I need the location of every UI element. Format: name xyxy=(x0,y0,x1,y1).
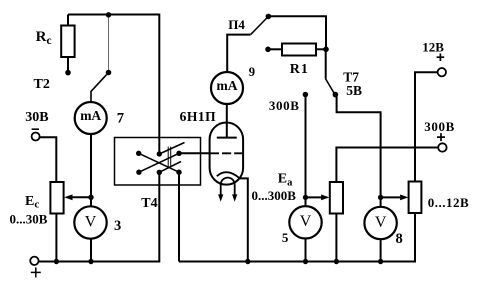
wire T4 crossover BL-TR xyxy=(139,153,179,172)
label plus bottom-left xyxy=(31,267,41,277)
svg-text:5: 5 xyxy=(282,230,289,245)
wire V3 to bus xyxy=(90,239,92,262)
svg-text:V: V xyxy=(375,214,387,231)
node cathode bus junction xyxy=(245,259,250,264)
switch T4 blade upper xyxy=(159,143,184,155)
voltmeter V 5 xyxy=(289,206,321,238)
label plus 300V xyxy=(437,133,445,141)
svg-text:5В: 5В xyxy=(346,83,362,98)
svg-text:7: 7 xyxy=(117,111,124,127)
wire 12V terminal to pot xyxy=(415,72,438,181)
svg-text:0...12В: 0...12В xyxy=(428,195,469,210)
node terminal 300V mid xyxy=(303,92,309,98)
svg-text:0...300В: 0...300В xyxy=(252,188,297,203)
potentiometer Ec xyxy=(50,182,63,214)
wire Ec wiper arrow xyxy=(64,194,91,200)
switch box T4 xyxy=(115,138,201,186)
node V5 bus junction xyxy=(303,259,308,264)
resistor R1 xyxy=(265,44,326,56)
switch P4 blade xyxy=(251,18,267,35)
node Rc bottom terminal xyxy=(65,70,71,76)
node T4 BM xyxy=(157,170,162,175)
svg-text:30В: 30В xyxy=(25,110,48,125)
node T2 contact xyxy=(106,70,112,76)
wire 300V terminal to pot Ea xyxy=(336,148,438,183)
switch T7 blade xyxy=(325,79,334,94)
svg-text:mA: mA xyxy=(217,78,238,93)
svg-text:300В: 300В xyxy=(424,119,455,134)
switch T2 blade xyxy=(91,75,107,102)
node Ec wiper junction xyxy=(88,195,93,200)
switch T4 blade lower xyxy=(159,162,181,173)
wire P4 to mA9 xyxy=(227,35,250,72)
wire 300V mid to V5 junction xyxy=(305,96,307,206)
svg-text:9: 9 xyxy=(249,65,255,79)
wire V8 to bus xyxy=(380,239,382,261)
wire V5 to bus xyxy=(305,239,307,262)
terminal plus bottom-left xyxy=(30,257,38,265)
wire R1 junction to T7 xyxy=(325,49,327,78)
svg-text:R1: R1 xyxy=(290,62,309,77)
wire bottom bus right segment xyxy=(179,213,415,262)
node T4 TR xyxy=(176,151,181,156)
wire V8 wiper arrow xyxy=(381,195,409,201)
svg-text:V: V xyxy=(300,213,312,230)
svg-text:П4: П4 xyxy=(228,17,245,32)
wire Ec pot to bus xyxy=(55,214,57,262)
node junction top wire / T2 xyxy=(106,12,111,17)
wire cathode to bus xyxy=(240,178,248,261)
node R1 right junction xyxy=(323,47,329,53)
node Ec bus junction xyxy=(54,259,59,264)
potentiometer 0-12V xyxy=(409,182,422,214)
node V3 bus junction xyxy=(88,259,93,264)
wire bottom bus left segment up to T4 contact xyxy=(39,172,160,261)
svg-text:V: V xyxy=(85,213,97,230)
milliammeter mA 9 xyxy=(211,72,243,104)
tube cathode xyxy=(217,172,240,178)
T4 coupling bars xyxy=(168,147,171,167)
node T4 TL xyxy=(136,151,141,156)
node P4 contact xyxy=(266,14,272,20)
node T7 contact xyxy=(333,92,339,98)
wire T2 fixed contact (thin vertical) xyxy=(108,16,110,71)
terminal 12V plus xyxy=(438,68,446,76)
wire top right from P4 to R1 drop xyxy=(268,16,326,49)
wire T4 to tube grid xyxy=(179,152,211,154)
wire mA7 to wiper node xyxy=(90,134,92,207)
node V5 junction xyxy=(303,195,308,200)
tube anode xyxy=(217,104,237,138)
node T4 TM xyxy=(157,151,162,156)
tube heater xyxy=(218,178,237,202)
milliammeter mA 7 xyxy=(75,102,107,134)
wire T4 crossover TL-BR xyxy=(139,153,179,172)
node T4 BR xyxy=(176,170,181,175)
terminal 30V minus xyxy=(32,129,40,140)
voltmeter V 8 xyxy=(364,207,396,239)
node V8 bus junction xyxy=(378,259,383,264)
svg-text:T2: T2 xyxy=(34,77,50,92)
terminal 300V plus right xyxy=(438,143,446,151)
wire Ea pot to bus xyxy=(335,214,337,262)
svg-text:12В: 12В xyxy=(422,39,444,54)
svg-text:300В: 300В xyxy=(269,98,300,113)
wire T7 to V8 junction xyxy=(337,97,381,208)
svg-text:6Н1П: 6Н1П xyxy=(180,109,217,124)
wire 30V terminal to pot Ec xyxy=(40,137,57,182)
node V8 junction xyxy=(378,195,383,200)
svg-text:mA: mA xyxy=(80,108,101,123)
node Ea pot bus junction xyxy=(334,259,339,264)
svg-text:3: 3 xyxy=(114,218,121,234)
svg-text:0...30В: 0...30В xyxy=(10,212,48,227)
resistor Rc xyxy=(61,15,74,72)
tube grid (dashed) xyxy=(210,152,244,154)
tube 6N1P envelope xyxy=(210,123,244,185)
label plus 12V xyxy=(437,53,445,61)
potentiometer Ea xyxy=(330,182,343,214)
wire Ea wiper arrow xyxy=(306,195,330,201)
svg-text:T4: T4 xyxy=(141,196,157,211)
svg-text:8: 8 xyxy=(396,231,403,247)
node T4 BL xyxy=(136,170,141,175)
voltmeter V 3 xyxy=(74,206,106,238)
wire top-left horizontal bus and drop to T4 xyxy=(68,15,159,155)
wire T4 BR to bus xyxy=(178,172,180,261)
